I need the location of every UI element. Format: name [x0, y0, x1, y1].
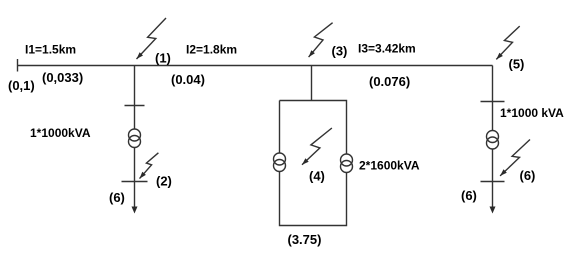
fault lightning arrow at node (4) [302, 128, 332, 165]
svg-text:I3=3.42km: I3=3.42km [358, 42, 416, 56]
transformer T3 (right of ring box, 2*1600kVA) [341, 154, 353, 173]
svg-text:(5): (5) [509, 57, 525, 72]
svg-text:(4): (4) [309, 169, 325, 184]
transformer T1 (1*1000kVA) [129, 129, 141, 148]
svg-text:(6): (6) [461, 188, 477, 203]
svg-text:1*1000 kVA: 1*1000 kVA [500, 106, 564, 120]
fault lightning arrow at node (1) [137, 18, 167, 59]
busbar tick on feeder 1 (lower, node 2/6) [122, 181, 148, 183]
load arrow at bottom of feeder 3 [490, 207, 496, 214]
svg-text:(0,033): (0,033) [42, 70, 83, 85]
svg-text:(6): (6) [109, 190, 125, 205]
wire: main bus from node 0 to node 5 [18, 65, 493, 67]
svg-text:(2): (2) [156, 174, 172, 189]
fault lightning arrow at node (6) right [500, 140, 530, 176]
svg-text:I1=1.5km: I1=1.5km [25, 43, 76, 57]
transformer T2 (left of ring box) [274, 153, 286, 172]
fault lightning arrow at node (3) [309, 23, 333, 57]
ring box (parallel transformer loop, value 3.75) [280, 101, 347, 226]
fault lightning arrow at node (5) [496, 26, 519, 59]
svg-text:(1): (1) [155, 51, 171, 66]
wire: stub from node 3 down to ring box [311, 66, 313, 101]
svg-text:(3.75): (3.75) [288, 232, 322, 247]
svg-text:I2=1.8km: I2=1.8km [186, 43, 237, 57]
fault lightning arrow at node (2) [140, 153, 159, 179]
svg-text:(0.076): (0.076) [369, 74, 410, 89]
svg-text:1*1000kVA: 1*1000kVA [30, 126, 91, 140]
svg-text:(3): (3) [332, 44, 348, 59]
node 0 terminal tick [17, 59, 19, 72]
wire: feeder 3 drop from node 5 to load arrow [492, 66, 494, 208]
svg-text:(0,1): (0,1) [8, 78, 35, 93]
svg-text:2*1600kVA: 2*1600kVA [359, 159, 420, 173]
busbar tick on feeder 3 (upper) [481, 101, 505, 103]
transformer T4 (1*1000 kVA) [487, 131, 499, 150]
busbar tick on feeder 3 (lower, node 6) [481, 181, 505, 183]
busbar tick on feeder 1 (upper) [125, 105, 145, 107]
load arrow at bottom of feeder 1 [132, 207, 138, 214]
svg-text:(6): (6) [520, 168, 536, 183]
wire: feeder 1 drop from node 1 to load arrow [134, 66, 136, 208]
svg-text:(0.04): (0.04) [171, 72, 205, 87]
